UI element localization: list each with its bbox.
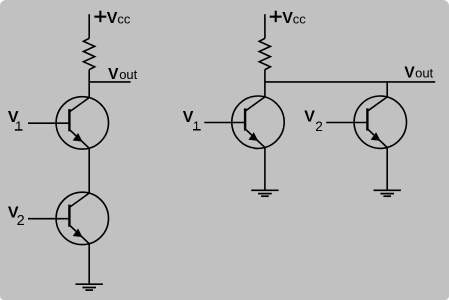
svg-text:cc: cc (293, 12, 307, 27)
svg-text:V: V (304, 109, 315, 126)
svg-text:cc: cc (117, 12, 130, 27)
svg-text:1: 1 (15, 119, 22, 134)
svg-text:V: V (404, 65, 415, 82)
svg-text:V: V (282, 10, 293, 27)
svg-text:out: out (119, 67, 137, 82)
svg-text:V: V (107, 10, 118, 27)
svg-text:2: 2 (17, 213, 25, 229)
svg-text:1: 1 (193, 118, 200, 133)
svg-text:2: 2 (315, 119, 323, 134)
svg-text:out: out (415, 66, 433, 81)
svg-text:V: V (108, 66, 119, 83)
